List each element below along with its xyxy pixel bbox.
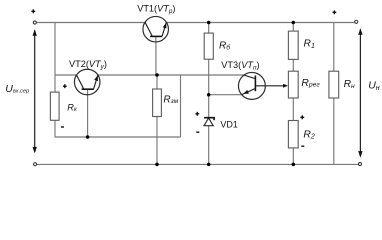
junction dot R6 / VD1 / VT3 emitter bbox=[207, 93, 211, 97]
svg-text:VT3(VTп): VT3(VTп) bbox=[221, 60, 259, 71]
transistor VT1 emitter lead (right) bbox=[162, 22, 166, 36]
arrow line Un (output voltage, double headed) bbox=[359, 30, 361, 157]
terminal input + (open circle) bbox=[33, 21, 36, 24]
junction dot top rail / R6 bbox=[207, 21, 211, 25]
svg-text:Rн: Rн bbox=[344, 79, 355, 90]
wire vertical branch x=55 from top rail down to Rk bbox=[54, 23, 56, 93]
terminal input - (open circle) bbox=[34, 163, 37, 166]
resistor R2 bbox=[288, 121, 298, 148]
junction dot bottom rail / VD1 bbox=[207, 163, 211, 167]
transistor VT2 emitter lead (right) bbox=[94, 75, 98, 89]
transistor VT1 emitter arrow bbox=[163, 23, 167, 29]
polarity - near R2 bottom bbox=[301, 145, 304, 147]
wire VD1 anode lead down to bottom rail bbox=[208, 126, 210, 165]
wire R2 bottom lead to bottom rail bbox=[292, 148, 294, 165]
resistor Rk (Rк) bbox=[50, 92, 59, 120]
wire Rn top lead from top rail bbox=[333, 23, 335, 72]
junction dot VT1 base / Rzm / y=75 wire bbox=[155, 73, 159, 77]
transistor VT1 base bar bbox=[150, 35, 162, 37]
transistor VT2 emitter arrow bbox=[94, 76, 98, 82]
transistor VT3 base bar (vertical) bbox=[254, 76, 256, 92]
transistor VT2 (VTu) circle bbox=[74, 69, 100, 95]
polarity - near Rk bottom bbox=[61, 126, 64, 128]
polarity - near VD1 anode bbox=[196, 131, 199, 133]
polarity + near Rk top bbox=[63, 84, 67, 88]
wire Rzm top lead from y=75 node bbox=[156, 75, 158, 89]
svg-text:R1: R1 bbox=[304, 39, 315, 50]
wiper arrow from VT3 base to Rreg bbox=[266, 85, 284, 87]
diode VD1 cathode bar with zener tick bbox=[204, 118, 214, 121]
transistor VT2 collector lead (left) bbox=[77, 75, 84, 89]
svg-text:VT2(VTу): VT2(VTу) bbox=[69, 59, 107, 70]
svg-text:Rзм: Rзм bbox=[163, 94, 178, 105]
junction dot bottom rail / R2 bbox=[292, 163, 296, 167]
polarity + at output top terminal bbox=[333, 10, 337, 14]
wire R6 bottom lead down to VD1 cathode (crosses y=75 wire) bbox=[208, 59, 210, 118]
transistor VT2 base bar bbox=[82, 88, 94, 90]
transistor VT1 (VTp) circle bbox=[143, 16, 169, 42]
wire Rzm bottom lead down to bottom rail bbox=[156, 117, 158, 165]
transistor VT3 collector lead (upper left) bbox=[244, 75, 255, 79]
wire riser x=180.5 from y=75 wire down to y=137 wire bbox=[180, 75, 182, 137]
wire VT2 collector lead (x=55 to VT2 circle) bbox=[55, 74, 77, 76]
wire VT2 emitter to VT1 base / VT3 collector (y=75) bbox=[98, 74, 244, 76]
diode VD1 zener triangle bbox=[204, 118, 213, 126]
arrow line Uvx (input voltage, double headed) bbox=[34, 31, 36, 153]
svg-text:Uн: Uн bbox=[368, 79, 380, 92]
junction dot top rail / divider R1 bbox=[292, 21, 296, 25]
potentiometer Rreg (Rрег) bbox=[288, 71, 298, 98]
wire R1 to Rreg lead bbox=[292, 59, 294, 71]
terminal output + (open circle) bbox=[355, 20, 358, 23]
resistor R6 (Rб) bbox=[204, 33, 213, 59]
transistor VT3 (VTn) circle bbox=[238, 72, 265, 99]
svg-text:Uвх.сер: Uвх.сер bbox=[5, 83, 29, 95]
transistor VT3 base lead stub to wiper arrow bbox=[255, 85, 266, 87]
wire VT2 base lead down to y=137 wire bbox=[87, 89, 89, 137]
resistor Rn (load Rн) bbox=[329, 71, 339, 98]
svg-text:VT1(VTр): VT1(VTр) bbox=[137, 3, 175, 14]
transistor VT1 collector lead (left) bbox=[145, 22, 152, 36]
transistor VT3 emitter lead (lower left) bbox=[242, 88, 256, 94]
polarity + at input top terminal bbox=[31, 9, 35, 13]
svg-text:R2: R2 bbox=[303, 130, 314, 141]
polarity + near R2 top bbox=[300, 115, 304, 119]
junction dot bottom rail / Rzm bbox=[155, 163, 159, 167]
wire Rk bottom lead down to inner bottom wire bbox=[54, 120, 56, 137]
svg-text:Rк: Rк bbox=[67, 103, 78, 114]
wire Rn bottom lead to bottom rail bbox=[333, 98, 335, 165]
polarity + near VD1 cathode bbox=[195, 112, 199, 116]
svg-text:VD1: VD1 bbox=[220, 120, 238, 130]
junction dot VT2 base / y=137 wire bbox=[86, 135, 90, 139]
svg-text:Rб: Rб bbox=[219, 40, 231, 51]
wire divider top lead (top rail to R1) bbox=[292, 23, 294, 32]
wire bottom rail (output - to input -) bbox=[37, 163, 358, 165]
wire top rail left segment (input + to VT1 collector) bbox=[37, 22, 145, 24]
resistor R1 bbox=[288, 31, 298, 59]
wire R6 top lead from top rail bbox=[208, 23, 210, 34]
terminal output - (open circle) bbox=[358, 162, 361, 165]
wire Rreg to R2 lead bbox=[292, 98, 294, 121]
transistor VT3 emitter arrow bbox=[243, 90, 249, 94]
resistor Rzm (Rзм) bbox=[153, 89, 162, 117]
svg-text:Rрег: Rрег bbox=[301, 78, 320, 89]
wire inner bottom y=137 from Rk to riser bbox=[54, 136, 180, 138]
wire VT3 emitter to VD1 node (y=94.7) bbox=[209, 94, 242, 96]
wire VT1 base lead down to y=75 wire bbox=[155, 36, 157, 75]
wire top rail right segment (VT1 emitter to output +) bbox=[166, 22, 354, 24]
